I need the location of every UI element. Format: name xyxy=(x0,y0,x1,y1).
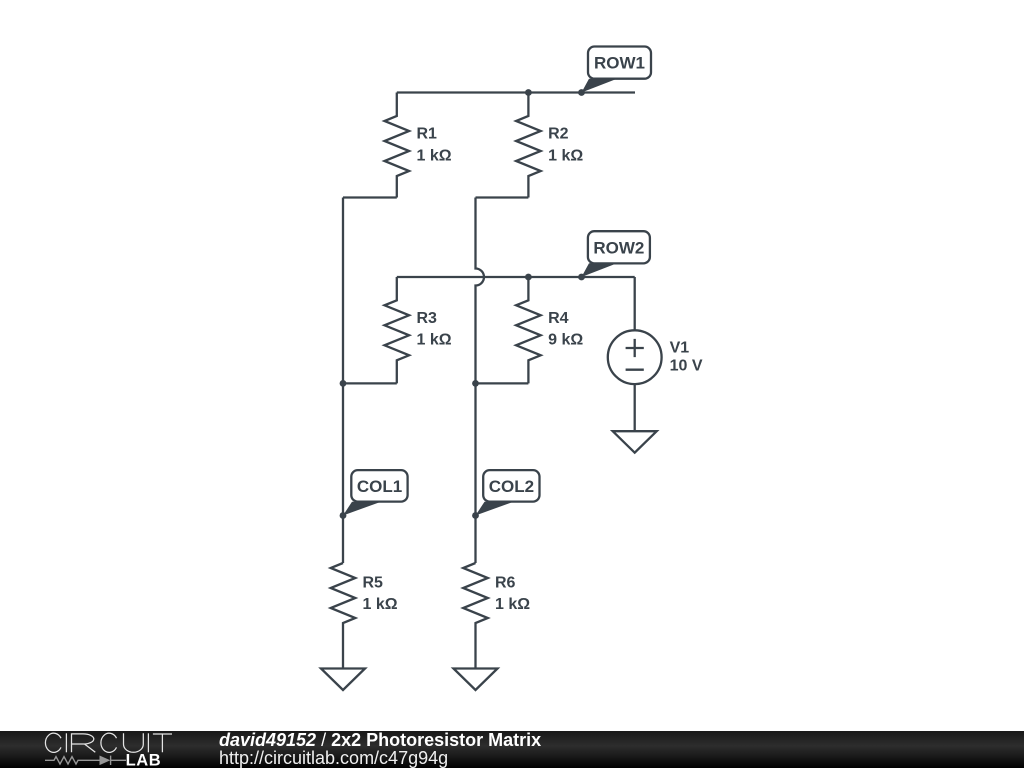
node ROW2 flag xyxy=(582,231,650,277)
svg-text:ROW1: ROW1 xyxy=(594,54,645,73)
resistor R3 xyxy=(385,277,410,383)
wire R3 bottom to COL1 xyxy=(343,382,397,384)
wire ROW2 horizontal xyxy=(397,276,635,278)
resistor R1 xyxy=(385,93,410,198)
wire ROW2 to V1 top xyxy=(634,277,636,330)
node COL1 flag xyxy=(343,470,408,515)
wire COL2 vertical upper with hop over ROW2 xyxy=(476,198,484,564)
resistor R4 xyxy=(516,277,541,383)
node ROW1 flag xyxy=(582,47,652,93)
svg-text:R6: R6 xyxy=(495,575,516,592)
svg-text:COL1: COL1 xyxy=(357,477,402,496)
wire R1 bottom to COL1 xyxy=(343,196,397,198)
svg-text:LAB: LAB xyxy=(126,751,162,768)
voltage source V1 xyxy=(608,330,662,384)
svg-text:R5: R5 xyxy=(363,575,384,592)
svg-text:9 kΩ: 9 kΩ xyxy=(548,332,583,349)
svg-text:COL2: COL2 xyxy=(489,477,534,496)
CircuitLab logo xyxy=(0,731,190,768)
ground for R5 xyxy=(321,669,365,691)
svg-text:10 V: 10 V xyxy=(670,358,703,375)
junction dot COL2 xyxy=(472,380,479,387)
wire R4 bottom to COL2 xyxy=(476,382,529,384)
resistor R2 xyxy=(516,93,541,198)
svg-text:1 kΩ: 1 kΩ xyxy=(363,596,398,613)
svg-text:R3: R3 xyxy=(417,310,438,327)
footer title line xyxy=(219,731,541,750)
node COL1 attach dot xyxy=(340,512,347,519)
wire ROW1 horizontal xyxy=(397,91,635,93)
ground for V1 xyxy=(613,431,657,453)
svg-text:1 kΩ: 1 kΩ xyxy=(417,147,452,164)
wire COL1 vertical xyxy=(342,198,344,564)
resistor R5 xyxy=(331,563,356,669)
node ROW2 attach dot xyxy=(578,274,585,281)
node COL2 flag xyxy=(476,470,540,515)
junction dot R4 top xyxy=(525,274,532,281)
footer bar xyxy=(0,731,1024,768)
resistor R6 xyxy=(463,563,488,669)
junction dot R2 top xyxy=(525,89,532,96)
svg-text:R4: R4 xyxy=(548,310,569,327)
svg-text:R2: R2 xyxy=(548,126,569,143)
junction dot COL1 xyxy=(340,380,347,387)
svg-text:V1: V1 xyxy=(670,340,690,357)
svg-text:ROW2: ROW2 xyxy=(593,238,644,257)
svg-text:R1: R1 xyxy=(417,126,438,143)
ground for R6 xyxy=(454,669,498,691)
wire V1 bottom to ground xyxy=(634,384,636,431)
node COL2 attach dot xyxy=(472,512,479,519)
node ROW1 attach dot xyxy=(578,89,585,96)
footer url line xyxy=(219,749,448,768)
svg-text:1 kΩ: 1 kΩ xyxy=(548,147,583,164)
wire R2 bottom to COL2 xyxy=(476,196,529,198)
svg-text:1 kΩ: 1 kΩ xyxy=(495,596,530,613)
svg-text:1 kΩ: 1 kΩ xyxy=(417,332,452,349)
